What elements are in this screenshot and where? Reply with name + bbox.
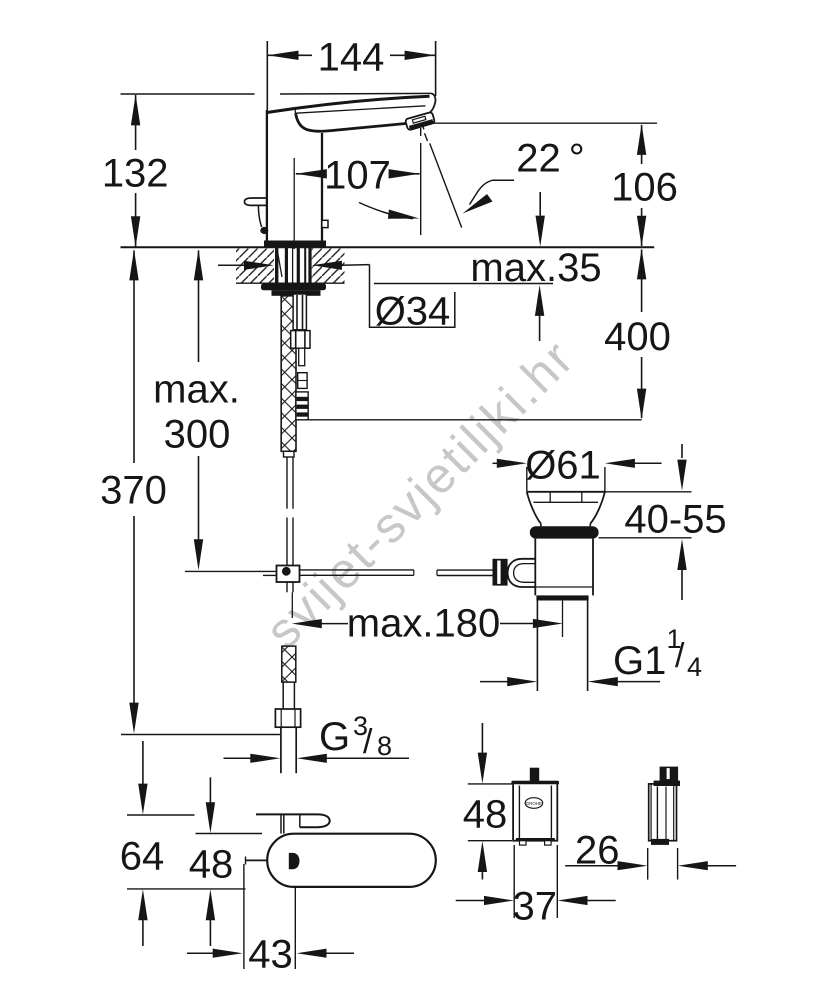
pop-up rod far segment [437,569,493,571]
svg-text:4: 4 [687,652,702,682]
faucet spout step [294,109,296,114]
dimension 107 ext line [293,158,295,249]
svg-text:43: 43 [248,933,293,977]
faucet body left edge [266,110,268,246]
GROHE logo oval [525,798,543,809]
control unit body [267,834,436,887]
counter hatched section left [236,248,274,283]
dimension 48 battery arrows [481,723,483,756]
G3/8 nut [275,709,300,727]
supply hose nut [291,331,310,349]
rod end cap [284,451,295,457]
dimension 144 ext line left / faucet left edge extension [266,41,268,110]
battery side bottom bar [651,839,669,845]
battery box side view [649,784,677,841]
drain body [534,539,536,596]
control unit window marker [289,853,300,869]
dimension 370 bottom ext line [121,734,280,736]
dimension 40-55 upper arrow [681,444,683,458]
drain neck [540,524,542,527]
control unit clip finger [256,814,330,827]
svg-text:max.: max. [153,368,240,412]
dimension max180 left arrow [291,592,293,618]
drain seal ring [530,526,599,538]
dimension max300 bottom ext line [185,570,277,572]
G3/8 tube [282,682,284,709]
hose below rod upper segment [286,457,288,509]
dimension 48 battery ext lines [468,783,512,785]
svg-text:26: 26 [575,829,620,873]
dimension max35 down arrow [539,192,541,216]
faucet base gasket [264,241,326,247]
dimension 37 ext lines [513,845,515,918]
svg-text:G: G [319,715,350,759]
dimension max180 right arrow [500,623,534,625]
battery box front view [513,782,557,841]
counter hatched section right [312,248,345,283]
water stream 22 degree line [422,125,424,130]
dimension 40-55 lower arrow [599,537,692,539]
battery box nipple [530,768,539,782]
dimension 132 top ext line [121,93,255,95]
sensor cable plug [296,392,308,420]
supply hose tube [299,348,305,366]
svg-text:max.180: max.180 [347,602,500,646]
dimension 400 line and arrows [641,250,643,313]
dimension 64 top ext line [127,814,195,816]
control unit clip vertical [280,814,282,833]
countertop line [121,246,655,248]
svg-text:Ø34: Ø34 [375,290,451,334]
faucet body right edge [321,133,323,246]
G3/8 threaded segment [282,646,296,682]
control unit cable stub [246,859,268,861]
drain rod clamp [493,559,508,586]
counter underside line [236,282,345,284]
faucet neck S-curve and underside [296,113,407,131]
dimension max35 up arrow [535,285,544,316]
dimension 132 line and arrows [135,95,137,150]
faucet spout right end cap [430,94,435,113]
dimension max300 line and arrows [198,251,200,363]
dimension diam34 arrows at shank [218,264,245,266]
svg-text:107: 107 [324,153,391,197]
svg-text:370: 370 [100,469,167,513]
faucet spout top silhouette [280,92,432,95]
dimension diam61 arrows [493,462,500,464]
aerator [405,112,435,131]
dimension max35 lower ref line [374,283,553,285]
dimension 37 arrows [456,900,485,902]
water stream dashed vertical reference [420,128,422,136]
battery side top flange [654,781,680,786]
sensor cable connector [298,373,307,389]
dimension 107 line and arrows [296,173,325,175]
svg-text:300: 300 [164,413,231,457]
svg-text:G1: G1 [613,639,666,683]
faucet spout chamfer line [296,106,426,113]
svg-text:22 °: 22 ° [516,137,585,181]
hose through pop-up tee [286,582,288,592]
dimension 144 ext line right [435,41,437,96]
sensor nub on body [322,220,328,227]
dimension 106 line and arrows [641,125,643,164]
dimension 144 line and arrows [268,54,313,56]
mounting flange [261,284,326,291]
22 degree leader with arrow [470,180,515,204]
swivel arc arrow [359,203,413,219]
G3/8 pipe [280,727,282,773]
drain body bottom [536,595,588,600]
mounting nut [272,290,321,296]
svg-text:48: 48 [189,843,234,887]
dimension G1 1/4 arrows [480,681,508,683]
drain side port [508,559,536,587]
hose below rod lower segment [286,518,288,566]
diam34 label box [370,265,455,328]
svg-text:132: 132 [102,152,169,196]
battery box feet [520,841,527,845]
svg-text:64: 64 [120,835,165,879]
pop-up rod right segment [300,569,414,571]
dimension 43 ext lines [243,864,245,969]
drain tailpipe [536,601,538,692]
battery side top block [660,767,679,782]
svg-text:/: / [363,723,373,761]
svg-text:144: 144 [318,36,385,80]
dimension 43 arrows [187,952,214,954]
temperature lever [245,198,267,205]
svg-text:max.35: max.35 [470,246,601,290]
svg-text:37: 37 [513,885,558,929]
dimension 64 arrows [142,741,144,787]
dimension 106 top ext line [426,122,657,124]
svg-text:106: 106 [611,166,678,210]
svg-text:40-55: 40-55 [624,498,726,542]
dimension 48 arrows [209,777,211,806]
dimension 26 arrows [565,865,620,867]
shank tubes through counter [275,248,278,284]
threaded rod [281,296,296,452]
dimension 64 bottom ext line [127,888,246,890]
dimension G3/8 arrows [224,757,253,759]
svg-text:8: 8 [377,731,392,761]
dimension 370 line and arrows [133,251,135,464]
supply hose connector [293,294,306,330]
svg-text:400: 400 [604,315,671,359]
svg-text:Ø61: Ø61 [525,444,601,488]
pop-up rod tee box [277,566,300,583]
dimension diam61 ext lines [526,467,528,492]
drain centre ext line [562,601,564,637]
drain flange top [527,491,605,493]
dimension 400 bottom ext line [306,419,642,421]
dimension 48 top ext line [196,833,263,835]
pop-up rod left stub [263,574,277,576]
svg-text:GROHE: GROHE [526,801,543,806]
svg-text:48: 48 [463,793,508,837]
dimension 26 ext lines [647,848,649,880]
svg-text:/: / [675,637,685,675]
faucet spout top front edge (thick) [267,96,430,112]
